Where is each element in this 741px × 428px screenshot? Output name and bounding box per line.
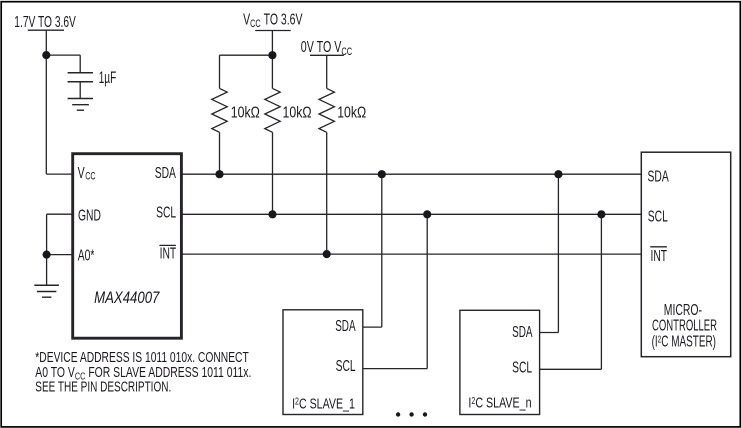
svg-text:SCL: SCL [648, 207, 668, 225]
svg-text:SCL: SCL [512, 358, 532, 376]
svg-text:SDA: SDA [335, 316, 355, 334]
svg-text:SDA: SDA [155, 164, 176, 182]
svg-text:SCL: SCL [156, 203, 176, 221]
svg-text:10kΩ: 10kΩ [337, 103, 366, 121]
svg-text:C MASTER): C MASTER) [661, 332, 716, 350]
svg-text:SEE THE PIN DESCRIPTION.: SEE THE PIN DESCRIPTION. [35, 379, 171, 395]
svg-text:V: V [78, 164, 85, 182]
svg-text:V: V [243, 10, 250, 28]
svg-text:INT: INT [160, 244, 177, 262]
svg-text:C SLAVE_n: C SLAVE_n [475, 394, 531, 411]
svg-text:SCL: SCL [336, 357, 356, 375]
svg-text:1.7V TO 3.6V: 1.7V TO 3.6V [14, 13, 76, 31]
svg-text:CC: CC [250, 18, 261, 30]
svg-text:(I: (I [652, 332, 658, 350]
svg-text:MAX44007: MAX44007 [94, 289, 160, 308]
svg-text:SDA: SDA [512, 323, 532, 341]
svg-text:1µF: 1µF [99, 68, 117, 86]
svg-text:CC: CC [341, 46, 352, 58]
svg-text:A0*: A0* [78, 246, 95, 264]
svg-text:GND: GND [78, 206, 101, 224]
svg-text:10kΩ: 10kΩ [283, 103, 312, 121]
svg-text:CC: CC [85, 170, 96, 182]
svg-text:C SLAVE_1: C SLAVE_1 [299, 394, 355, 411]
svg-text:INT: INT [651, 247, 668, 265]
svg-text:0V TO V: 0V TO V [301, 38, 342, 55]
svg-text:SDA: SDA [648, 167, 669, 185]
svg-text:TO 3.6V: TO 3.6V [264, 10, 303, 28]
svg-text:10kΩ: 10kΩ [231, 103, 260, 121]
